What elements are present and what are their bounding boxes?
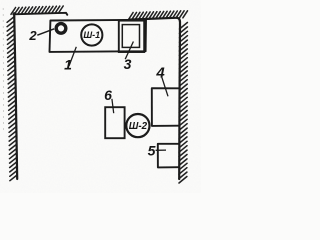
svg-text:4: 4 [155, 65, 165, 82]
wall line top-left segment [13, 13, 67, 15]
leader 1 [69, 47, 76, 66]
wall hatching top-right [129, 11, 188, 20]
leader 2 [37, 29, 54, 35]
wall hatching right [179, 23, 187, 184]
rect 4 [152, 88, 179, 126]
leader 3 [125, 42, 133, 60]
machine circle Sh-1 [81, 24, 102, 45]
leader 6 [112, 99, 114, 113]
rect 6 [105, 107, 124, 138]
wall line top-right + right [129, 18, 180, 179]
workbench rect 1 [50, 20, 147, 52]
svg-text:1: 1 [64, 57, 72, 73]
wall line left [14, 13, 17, 179]
square 3 inner [122, 25, 139, 48]
wall hatching left [7, 17, 17, 181]
svg-text:2: 2 [28, 28, 37, 43]
wall hatching top-left [11, 6, 63, 14]
svg-text:6: 6 [104, 87, 112, 103]
svg-text:Ш-1: Ш-1 [83, 30, 100, 40]
grinder circle 2 [56, 24, 66, 34]
svg-text:3: 3 [124, 56, 132, 72]
svg-text:5: 5 [148, 143, 156, 159]
leader 4 [162, 77, 168, 96]
svg-text:Ш-2: Ш-2 [129, 121, 148, 132]
faint paper edge left [2, 8, 4, 130]
scan noise texture [0, 0, 1, 1]
leader 5 [156, 149, 166, 151]
machine circle Sh-2 [126, 114, 149, 137]
square 3 outer [119, 21, 144, 52]
rect 5 [158, 144, 179, 168]
